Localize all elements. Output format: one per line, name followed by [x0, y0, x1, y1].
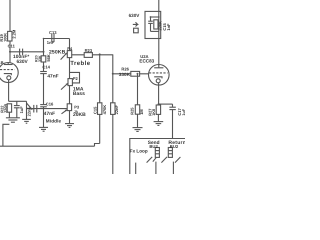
- svg-text:470K: 470K: [102, 105, 107, 115]
- svg-text:1nF: 1nF: [166, 23, 171, 31]
- svg-text:P2: P2: [73, 76, 79, 81]
- svg-text:630V: 630V: [129, 13, 141, 18]
- svg-text:33K: 33K: [38, 55, 42, 62]
- svg-text:1nF: 1nF: [47, 40, 55, 45]
- svg-text:R26: R26: [121, 66, 129, 71]
- svg-text:R23: R23: [85, 48, 93, 53]
- svg-text:BU2: BU2: [149, 144, 158, 149]
- svg-text:630V: 630V: [17, 59, 29, 65]
- svg-text:BU2: BU2: [170, 144, 179, 149]
- svg-text:1uF: 1uF: [182, 108, 185, 115]
- svg-text:2.2M: 2.2M: [12, 29, 17, 39]
- svg-text:100K: 100K: [4, 33, 8, 42]
- svg-text:220R: 220R: [4, 103, 8, 112]
- svg-text:C15: C15: [92, 106, 97, 114]
- svg-text:Middle: Middle: [46, 118, 62, 123]
- svg-text:1uF: 1uF: [19, 106, 24, 114]
- svg-text:47nF: 47nF: [44, 111, 55, 117]
- svg-text:C11: C11: [8, 43, 16, 48]
- svg-text:22nF: 22nF: [114, 105, 119, 115]
- svg-text:C14: C14: [42, 65, 50, 70]
- svg-text:1K8: 1K8: [152, 109, 156, 116]
- svg-text:1B: 1B: [0, 60, 4, 65]
- svg-text:1M: 1M: [139, 109, 144, 115]
- svg-text:Bass: Bass: [73, 91, 85, 97]
- svg-text:250KB: 250KB: [49, 50, 66, 56]
- svg-text:47nF: 47nF: [47, 74, 58, 80]
- svg-text:Fx Loop: Fx Loop: [130, 148, 148, 153]
- svg-text:C13: C13: [49, 30, 57, 35]
- svg-text:C16: C16: [46, 101, 54, 106]
- svg-text:R25: R25: [129, 107, 134, 115]
- svg-text:22nF: 22nF: [27, 107, 32, 117]
- svg-text:Treble: Treble: [70, 60, 91, 67]
- svg-text:20KB: 20KB: [73, 112, 86, 118]
- svg-text:330K: 330K: [119, 72, 131, 77]
- svg-text:ECC83: ECC83: [139, 59, 154, 64]
- svg-text:P4: P4: [67, 46, 73, 51]
